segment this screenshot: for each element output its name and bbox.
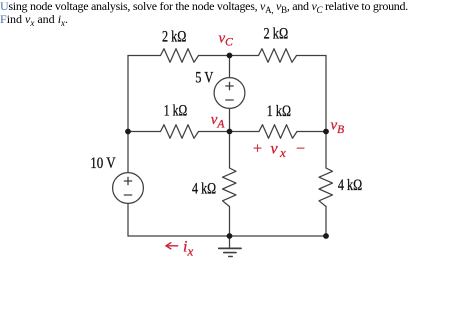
resistor R4 1kOhm right zigzag: [259, 125, 297, 139]
svg-text:4 kΩ: 4 kΩ: [338, 177, 362, 194]
svg-text:vC: vC: [219, 31, 234, 49]
wire top-left segment: [128, 55, 161, 57]
node vC junction dot: [227, 53, 233, 59]
resistor R2 2kOhm top-right zigzag: [259, 49, 297, 63]
problem statement text: [0, 0, 474, 26]
wire vB to right 4k resistor: [325, 132, 327, 169]
wire top-middle segment: [199, 55, 259, 57]
plus sign of 5V source: [226, 82, 233, 89]
plus sign of 10V source: [124, 177, 131, 184]
wire middle-right segment: [297, 131, 326, 133]
wire center 4k resistor to bottom: [229, 207, 231, 237]
svg-text:2 kΩ: 2 kΩ: [162, 29, 186, 46]
resistor R3 1kOhm left zigzag: [161, 125, 199, 139]
svg-text:2 kΩ: 2 kΩ: [264, 26, 289, 43]
resistor R6 4kOhm right zigzag: [319, 168, 333, 207]
wire middle-left segment: [128, 131, 161, 133]
svg-text:1 kΩ: 1 kΩ: [164, 103, 187, 120]
svg-text:4 kΩ: 4 kΩ: [192, 180, 216, 197]
wire left rail upper: [127, 56, 129, 132]
svg-text:10 V: 10 V: [90, 155, 116, 172]
label ix current arrow: [166, 243, 178, 249]
svg-text:vA: vA: [211, 112, 226, 131]
node vA junction dot: [227, 129, 233, 135]
wire right 4k resistor to bottom: [325, 207, 327, 237]
node bottom-right junction dot: [323, 233, 329, 239]
voltage source V2 5V circle: [214, 78, 245, 109]
svg-text:5 V: 5 V: [195, 70, 213, 87]
svg-text:1 kΩ: 1 kΩ: [267, 103, 291, 120]
wire bottom rail: [128, 235, 326, 237]
svg-text:vB: vB: [331, 118, 345, 137]
wire right rail upper: [325, 56, 327, 132]
wire top-right segment: [297, 55, 327, 57]
wire 5V source to vA: [229, 109, 231, 132]
resistor R5 4kOhm center zigzag: [223, 168, 237, 207]
wire left rail lower: [127, 204, 129, 237]
ground symbol: [219, 236, 241, 257]
minus sign of 5V source: [226, 99, 233, 101]
node bottom-center junction dot: [227, 233, 233, 239]
voltage source V1 10V circle: [113, 173, 144, 204]
wire left rail middle: [127, 132, 129, 173]
node vB junction dot: [323, 129, 329, 135]
svg-text:+vx−: +vx−: [253, 141, 305, 161]
resistor R1 2kOhm top-left zigzag: [161, 49, 199, 63]
wire middle-center segment: [199, 131, 260, 133]
wire vA to center 4k resistor: [229, 132, 231, 169]
svg-text:ix: ix: [183, 239, 193, 259]
wire center stub vC to 5V source: [229, 56, 231, 78]
node left-middle junction dot: [125, 129, 131, 135]
minus sign of 10V source: [124, 194, 131, 196]
